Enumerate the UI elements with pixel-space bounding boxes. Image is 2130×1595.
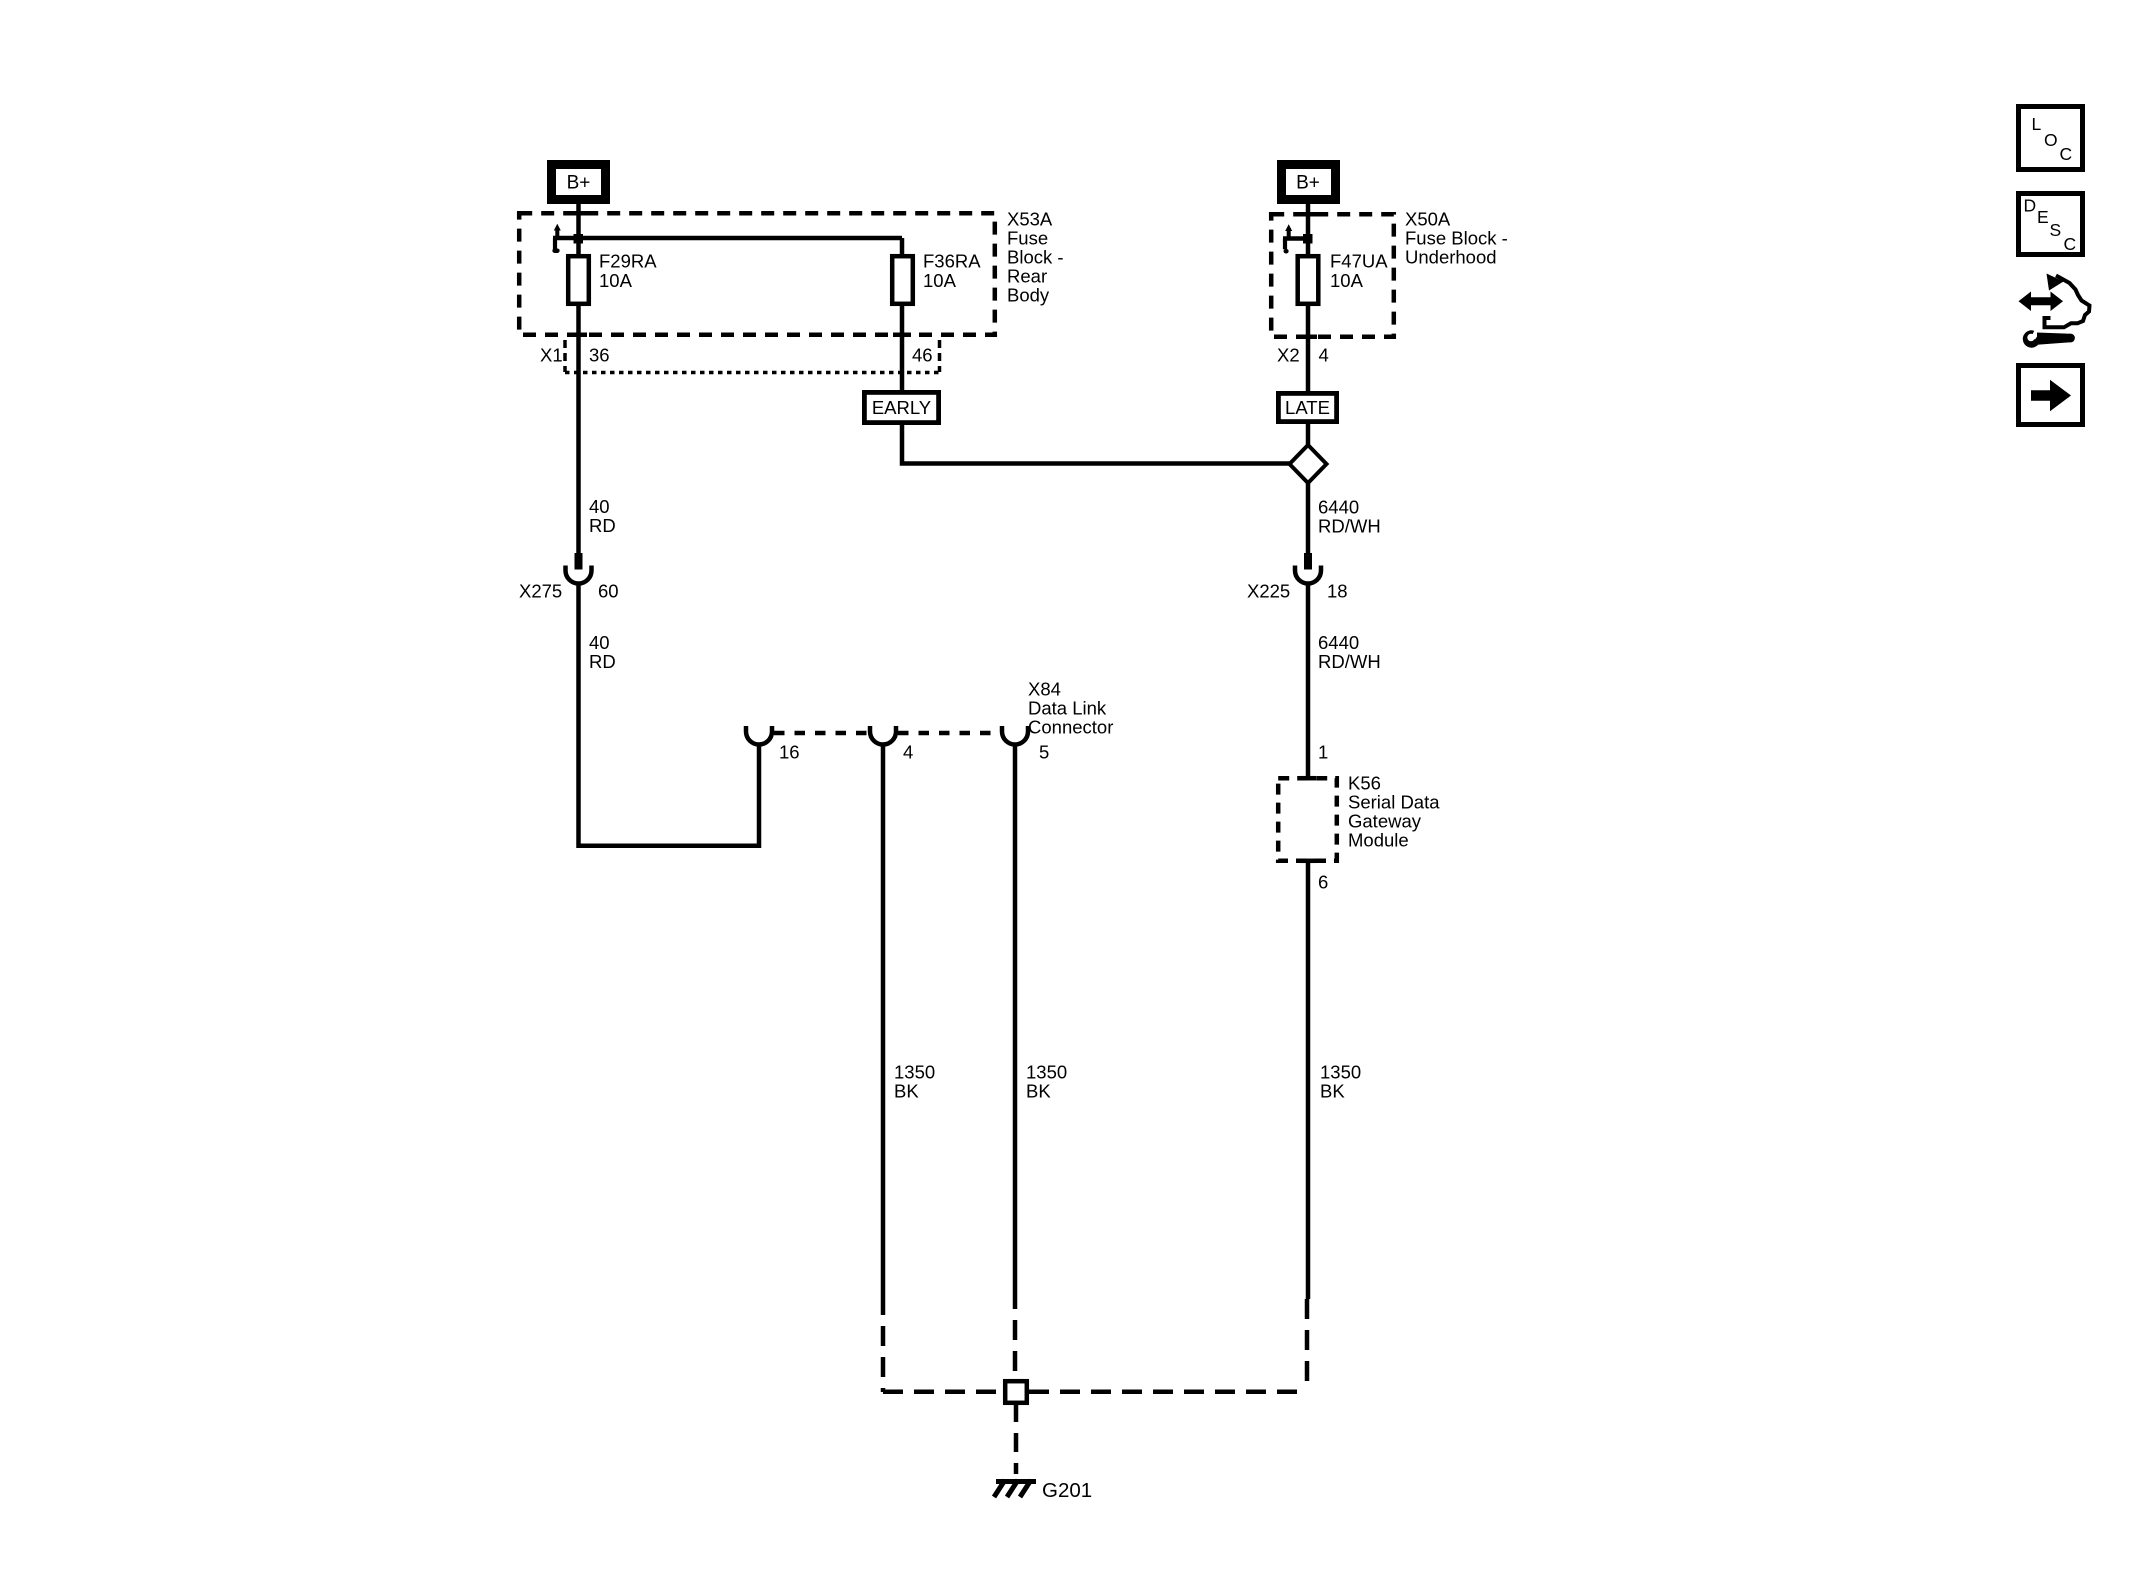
wire K56 down solid [1306, 861, 1311, 1299]
svg-text:Block -: Block - [1007, 246, 1064, 267]
svg-text:40: 40 [589, 496, 610, 517]
svg-text:F36RA: F36RA [923, 250, 981, 271]
wire EARLY down and right to diamond [902, 422, 1290, 464]
svg-text:BK: BK [1320, 1080, 1345, 1101]
svg-text:BK: BK [894, 1080, 919, 1101]
svg-text:G201: G201 [1042, 1479, 1092, 1502]
wire horizontal from junction to F36RA [553, 236, 902, 241]
svg-text:C: C [2060, 144, 2073, 164]
svg-text:10A: 10A [599, 270, 633, 291]
svg-text:K56: K56 [1348, 773, 1381, 794]
svg-text:X225: X225 [1247, 580, 1290, 601]
svg-text:E: E [2037, 207, 2049, 227]
wire K56 dashed to ground bus [1305, 1299, 1310, 1392]
power symbol B+ left [552, 165, 606, 200]
X84 dashed bus left segment [774, 731, 868, 736]
wire F47UA down to LATE [1306, 304, 1311, 393]
svg-text:EARLY: EARLY [872, 397, 931, 418]
fuse F29RA [568, 256, 589, 304]
wire pin5 down solid [1013, 744, 1018, 1289]
svg-text:4: 4 [903, 741, 913, 762]
sidebar wrench icon [2023, 329, 2075, 348]
wire label 40 RD upper [589, 496, 616, 536]
svg-text:6: 6 [1318, 871, 1328, 892]
fuse F36RA [892, 256, 913, 304]
svg-text:10A: 10A [1330, 270, 1364, 291]
svg-text:X2: X2 [1277, 344, 1300, 365]
wire label 1350 BK right [1320, 1061, 1361, 1101]
wire F36RA down to EARLY [900, 304, 905, 392]
wire LATE to diamond [1306, 421, 1311, 445]
svg-text:5: 5 [1039, 741, 1049, 762]
svg-text:X84: X84 [1028, 678, 1061, 699]
svg-text:4: 4 [1319, 344, 1329, 365]
wire label 1350 BK middle [1026, 1061, 1067, 1101]
power symbol B+ right [1282, 165, 1336, 200]
svg-text:RD: RD [589, 651, 616, 672]
svg-text:Fuse: Fuse [1007, 227, 1048, 248]
svg-text:X53A: X53A [1007, 208, 1053, 229]
svg-text:Rear: Rear [1007, 265, 1047, 286]
fuse F47UA [1298, 256, 1319, 304]
label F36RA 10A [923, 250, 981, 291]
svg-text:Fuse Block -: Fuse Block - [1405, 227, 1508, 248]
svg-text:60: 60 [598, 580, 619, 601]
svg-text:F29RA: F29RA [599, 250, 657, 271]
EARLY box [864, 392, 938, 422]
label F29RA 10A [599, 250, 657, 291]
svg-text:RD/WH: RD/WH [1318, 515, 1381, 536]
wire down to F36RA [900, 238, 905, 256]
svg-text:46: 46 [912, 344, 933, 365]
svg-text:X50A: X50A [1405, 208, 1451, 229]
svg-text:1350: 1350 [1026, 1061, 1067, 1082]
svg-text:L: L [2032, 114, 2042, 134]
svg-text:Data Link: Data Link [1028, 697, 1107, 718]
label K56 Serial Data Gateway Module [1348, 773, 1440, 851]
fuse block X53A dashed box [519, 213, 995, 335]
svg-text:D: D [2024, 195, 2037, 215]
svg-text:X275: X275 [519, 580, 562, 601]
hook symbol (other circuits) left [554, 224, 561, 251]
wire pin4 down solid [881, 744, 886, 1295]
svg-text:40: 40 [589, 632, 610, 653]
wire label 40 RD lower [589, 632, 616, 672]
X84 pin 16 arc [746, 726, 772, 745]
label X84 Data Link Connector [1028, 678, 1113, 737]
wire X225 down to K56 [1306, 582, 1311, 778]
svg-text:Serial Data: Serial Data [1348, 792, 1440, 813]
svg-text:Body: Body [1007, 284, 1050, 305]
svg-text:LATE: LATE [1285, 397, 1330, 418]
svg-text:F47UA: F47UA [1330, 250, 1388, 271]
wire F29RA down to connector X275 [576, 304, 581, 569]
diamond junction [1290, 445, 1327, 483]
wire below X275 [579, 582, 760, 846]
X84 pin 5 arc [1002, 726, 1028, 745]
svg-text:1350: 1350 [1320, 1061, 1361, 1082]
svg-text:BK: BK [1026, 1080, 1051, 1101]
sidebar diagnostic icon arrowhead [2047, 274, 2064, 291]
svg-text:16: 16 [779, 741, 800, 762]
connector X225 symbol [1295, 553, 1321, 584]
connector row X1 right edge [938, 340, 942, 372]
svg-text:Gateway: Gateway [1348, 811, 1422, 832]
wire diamond to X225 [1306, 482, 1311, 569]
ground bus dashed left [883, 1390, 1003, 1395]
svg-text:S: S [2050, 220, 2062, 240]
ground symbol G201 [994, 1480, 1036, 1497]
sidebar LOC box [2019, 107, 2083, 170]
X84 pin 4 arc [870, 726, 896, 745]
hook symbol (other circuits) right [1285, 224, 1292, 251]
svg-text:10A: 10A [923, 270, 957, 291]
junction dot left [574, 234, 584, 244]
sidebar diagnostic icon double arrow [2019, 292, 2064, 312]
wire pin4 dashed to ground bus [881, 1295, 886, 1392]
tick from hook to wire right [1283, 236, 1308, 241]
connector row X1 bottom dotted [565, 371, 941, 375]
svg-text:6440: 6440 [1318, 632, 1359, 653]
svg-text:36: 36 [589, 344, 610, 365]
svg-text:B+: B+ [1296, 172, 1320, 193]
svg-text:1350: 1350 [894, 1061, 935, 1082]
svg-text:B+: B+ [567, 172, 591, 193]
sidebar DESC box [2019, 194, 2083, 255]
LATE box [1278, 393, 1336, 421]
label F47UA 10A [1330, 250, 1388, 291]
dashed wire splice to ground [1014, 1403, 1019, 1474]
sidebar arrow box [2019, 366, 2083, 425]
svg-text:18: 18 [1327, 580, 1348, 601]
fuse block X50A dashed box [1271, 214, 1394, 337]
sidebar diagnostic icon outline [2045, 276, 2090, 328]
module K56 dashed box [1278, 778, 1337, 861]
wire label 6440 RD/WH lower [1318, 632, 1381, 672]
svg-text:6440: 6440 [1318, 496, 1359, 517]
label X50A Fuse Block - Underhood [1405, 208, 1508, 267]
wire label 1350 BK left [894, 1061, 935, 1101]
wire from B+ left to fuse F29RA [576, 204, 581, 256]
label X53A Fuse Block - Rear Body [1007, 208, 1064, 305]
svg-text:RD/WH: RD/WH [1318, 651, 1381, 672]
svg-text:O: O [2044, 130, 2058, 150]
svg-text:X1: X1 [540, 344, 563, 365]
svg-text:C: C [2064, 234, 2077, 254]
connector row X1 separator [563, 340, 567, 372]
splice square S [1005, 1381, 1027, 1403]
wire label 6440 RD/WH upper [1318, 496, 1381, 536]
svg-text:Connector: Connector [1028, 716, 1113, 737]
svg-text:Underhood: Underhood [1405, 246, 1497, 267]
connector X275 symbol [566, 553, 592, 584]
svg-text:RD: RD [589, 515, 616, 536]
X84 dashed bus right segment [898, 731, 1000, 736]
ground bus dashed right [1029, 1390, 1307, 1395]
wire from B+ right to fuse F47UA [1306, 204, 1311, 256]
svg-text:Module: Module [1348, 830, 1409, 851]
svg-text:1: 1 [1318, 741, 1328, 762]
junction dot right [1303, 234, 1313, 244]
wire pin5 dashed to splice [1013, 1289, 1018, 1379]
